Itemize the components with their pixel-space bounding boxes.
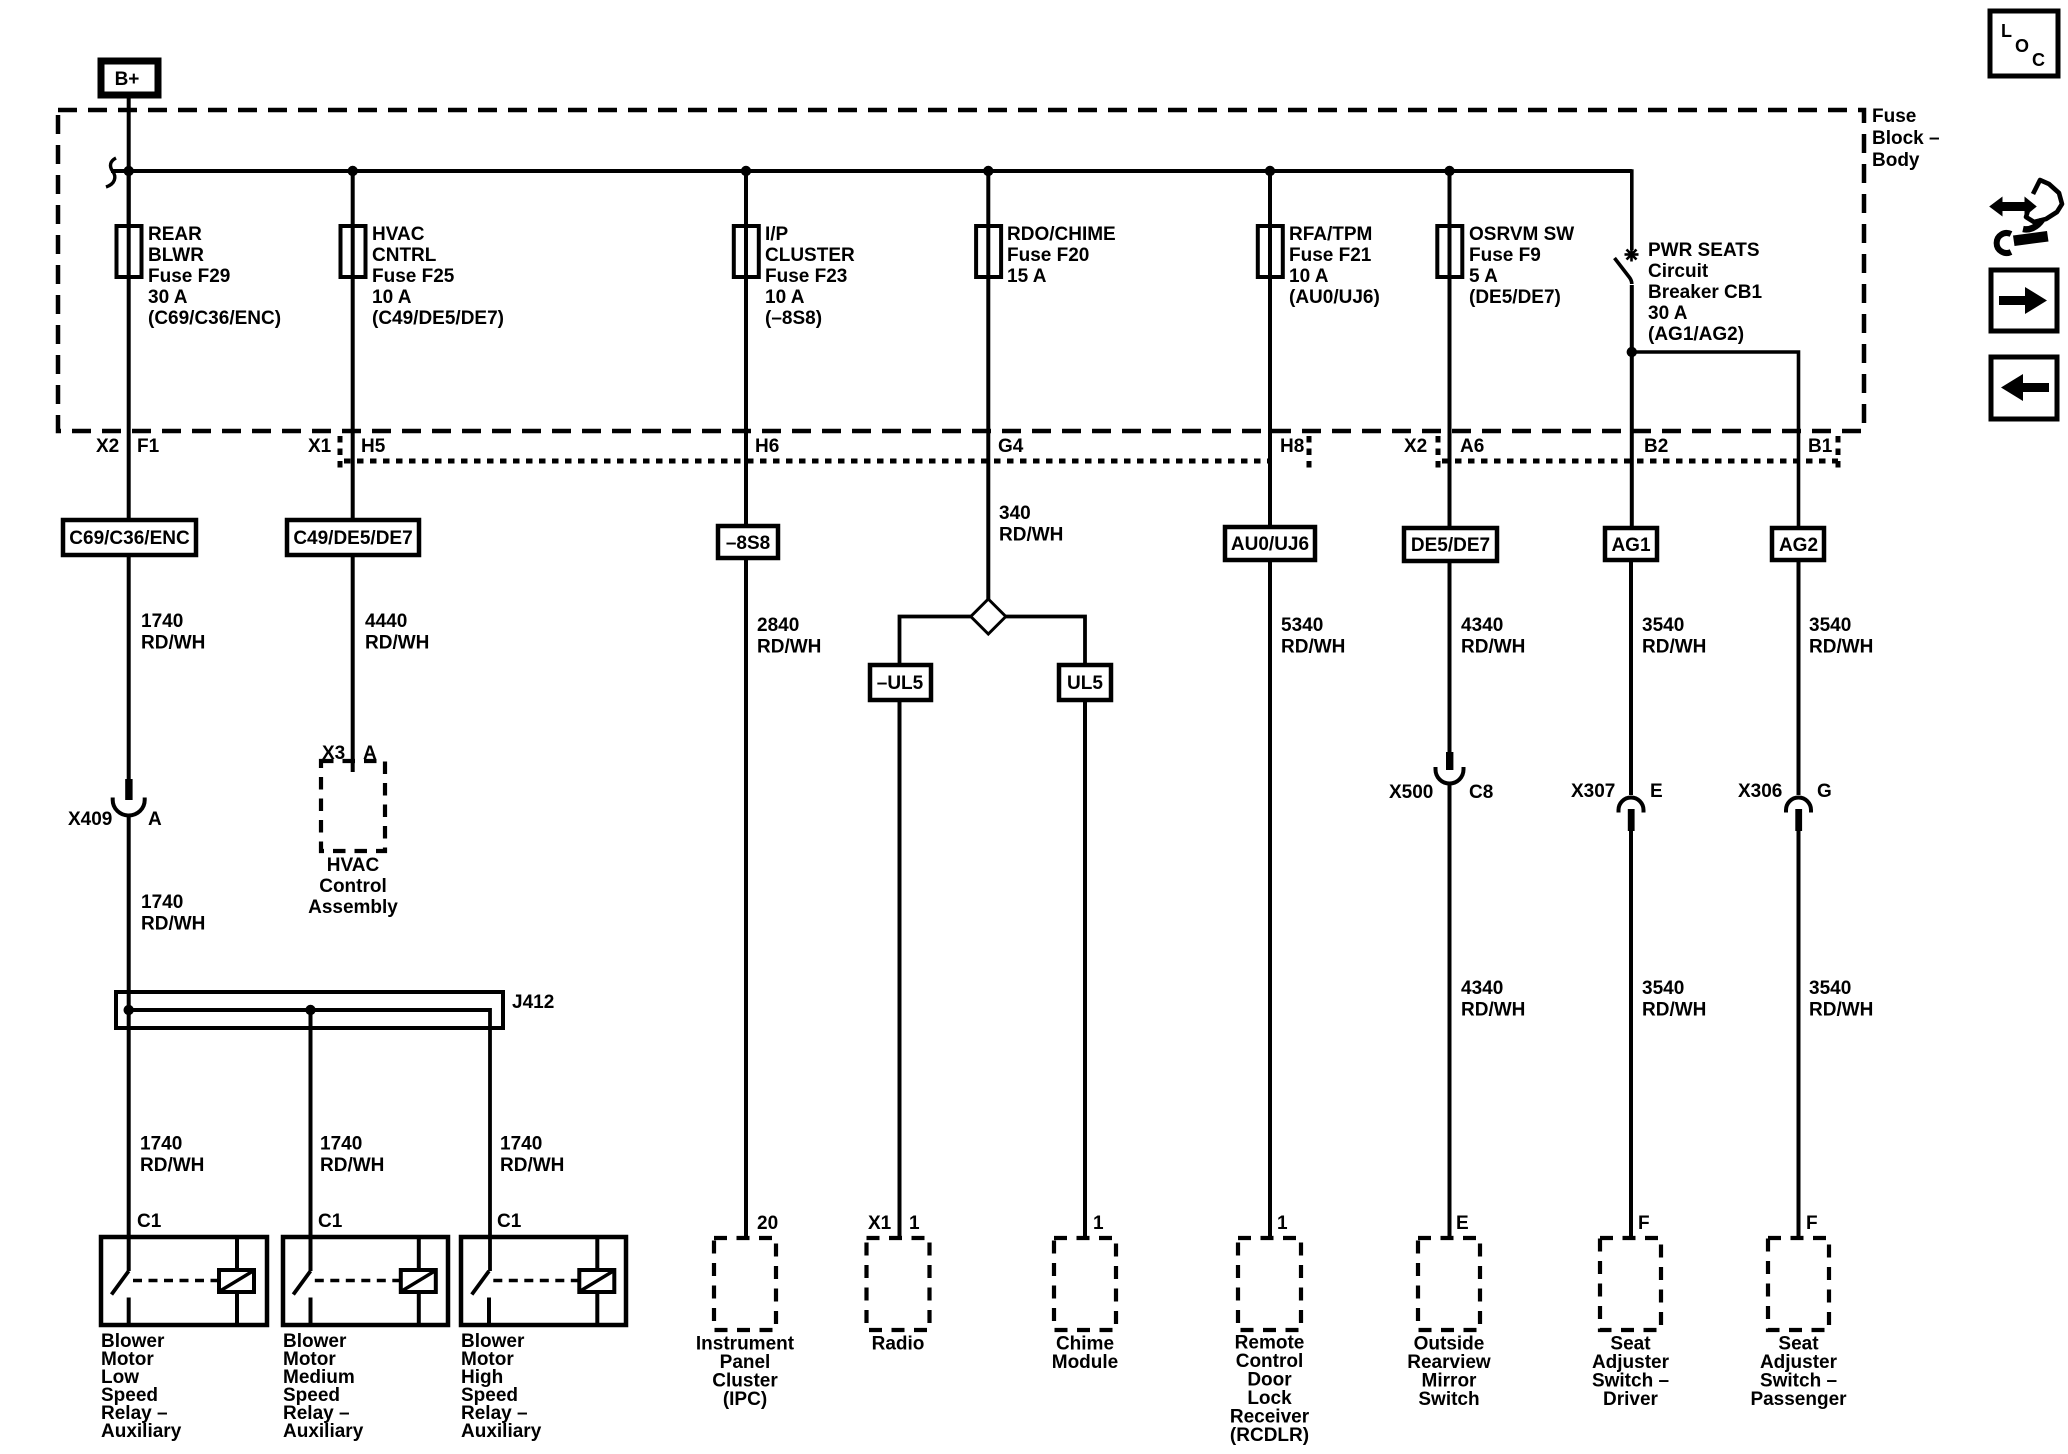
pin label H8	[1280, 436, 1304, 457]
component Chime Module dashed box	[1052, 1238, 1119, 1373]
svg-text:X307: X307	[1571, 781, 1615, 802]
wire label 3540 RD/WH lower passenger	[1809, 978, 1873, 1021]
svg-text:Fuse: Fuse	[1872, 106, 1916, 127]
svg-text:G4: G4	[998, 436, 1024, 457]
svg-text:F: F	[1638, 1213, 1650, 1234]
svg-text:AG1: AG1	[1611, 535, 1651, 556]
svg-text:1: 1	[1093, 1213, 1104, 1234]
svg-text:(–8S8): (–8S8)	[765, 308, 822, 329]
wire fuse F21 to H8	[1268, 277, 1272, 527]
wire label 1740 RD/WH medium	[320, 1134, 384, 1177]
option label UL5	[1059, 665, 1111, 700]
icon shift wrench navigation	[1990, 180, 2062, 253]
svg-text:10 A: 10 A	[765, 287, 805, 308]
svg-text:G: G	[1817, 781, 1832, 802]
wire C49 label to HVAC assembly	[351, 555, 355, 772]
circuit breaker CB1 PWR SEATS	[1615, 240, 1763, 345]
icon LOC box	[1990, 11, 2058, 76]
svg-text:1740: 1740	[500, 1134, 542, 1155]
svg-text:PWR SEATS: PWR SEATS	[1648, 240, 1760, 261]
wire branch left to radio	[900, 617, 971, 666]
svg-text:H6: H6	[755, 436, 779, 457]
svg-text:1740: 1740	[141, 611, 183, 632]
svg-text:E: E	[1456, 1213, 1469, 1234]
main bus wire	[111, 169, 1632, 173]
wire label 1740 RD/WH upper	[141, 611, 205, 654]
wire label 1740 RD/WH middle	[141, 892, 205, 935]
relay K2 Blower Motor Medium Speed Relay Auxiliary	[283, 1237, 448, 1442]
svg-text:30 A: 30 A	[1648, 303, 1688, 324]
svg-text:–UL5: –UL5	[877, 673, 924, 694]
svg-text:B1: B1	[1808, 436, 1833, 457]
svg-text:E: E	[1650, 781, 1663, 802]
inline connector X306 pin G	[1738, 781, 1832, 831]
svg-text:(IPC): (IPC)	[723, 1389, 767, 1410]
svg-text:CLUSTER: CLUSTER	[765, 245, 855, 266]
pin label X2 F1	[96, 436, 160, 457]
splice diamond on circuit 340	[971, 599, 1006, 634]
junction node at F23 tap	[741, 166, 751, 176]
svg-text:340: 340	[999, 503, 1031, 524]
component Seat Adjuster Switch Driver dashed box	[1592, 1238, 1670, 1410]
relay K1 Blower Motor Low Speed Relay Auxiliary	[101, 1237, 267, 1442]
wire bus to fuse F9	[1448, 171, 1452, 226]
wire bus to fuse F25	[351, 171, 355, 226]
svg-text:RD/WH: RD/WH	[500, 1155, 564, 1176]
wire branch right to chime	[1006, 617, 1085, 666]
svg-text:Radio: Radio	[872, 1334, 925, 1355]
svg-text:Auxiliary: Auxiliary	[461, 1421, 542, 1442]
pin label 1 RCDLR	[1277, 1213, 1288, 1234]
harness label C69/C36/ENC	[63, 520, 196, 555]
inline connector X307 pin E	[1571, 781, 1663, 831]
svg-text:(C69/C36/ENC): (C69/C36/ENC)	[148, 308, 281, 329]
svg-text:X2: X2	[96, 436, 119, 457]
svg-text:C1: C1	[137, 1211, 162, 1232]
pin label C1 medium relay	[318, 1211, 343, 1232]
inline connector X409 pin A	[68, 779, 162, 830]
svg-text:REAR: REAR	[148, 224, 202, 245]
wire label 4340 RD/WH upper	[1461, 615, 1525, 658]
svg-text:OSRVM SW: OSRVM SW	[1469, 224, 1574, 245]
harness label C49/DE5/DE7	[287, 520, 419, 555]
pin label X1 H5	[308, 436, 386, 457]
svg-text:A6: A6	[1460, 436, 1484, 457]
pin label X2 A6	[1404, 436, 1484, 457]
wire bus to fuse F20	[986, 171, 990, 226]
svg-text:I/P: I/P	[765, 224, 789, 245]
component Remote Control Door Lock Receiver dashed box	[1230, 1238, 1310, 1446]
connector X1 dotted boundary	[340, 436, 1309, 468]
connector X2 dotted boundary	[1438, 436, 1838, 468]
fuse F23 I/P CLUSTER	[734, 224, 855, 329]
pin label G4	[998, 436, 1024, 457]
svg-text:4340: 4340	[1461, 615, 1503, 636]
svg-text:3540: 3540	[1642, 978, 1684, 999]
svg-text:C49/DE5/DE7: C49/DE5/DE7	[293, 528, 412, 549]
svg-text:(AG1/AG2): (AG1/AG2)	[1648, 324, 1744, 345]
wire X409 down	[127, 816, 131, 1011]
svg-text:30 A: 30 A	[148, 287, 188, 308]
wire label 4340 RD/WH lower	[1461, 978, 1525, 1021]
svg-text:F: F	[1806, 1213, 1818, 1234]
wire fuse F23 to H6	[744, 277, 748, 526]
svg-text:F1: F1	[137, 436, 160, 457]
wire label 3540 RD/WH upper passenger	[1809, 615, 1873, 658]
svg-text:X2: X2	[1404, 436, 1427, 457]
wire fuse F25 to X1 H5	[351, 277, 355, 520]
splice pack J412	[116, 992, 554, 1028]
svg-text:Auxiliary: Auxiliary	[101, 1421, 182, 1442]
svg-text:(AU0/UJ6): (AU0/UJ6)	[1289, 287, 1380, 308]
wire label 3540 RD/WH upper driver	[1642, 615, 1706, 658]
pin label C1 low relay	[137, 1211, 162, 1232]
svg-text:Passenger: Passenger	[1750, 1389, 1847, 1410]
power feed B+	[101, 61, 158, 95]
svg-text:C8: C8	[1469, 782, 1493, 803]
svg-text:5 A: 5 A	[1469, 266, 1498, 287]
svg-text:H5: H5	[361, 436, 386, 457]
junction node J412 tap 2	[305, 1005, 315, 1015]
svg-text:Fuse F21: Fuse F21	[1289, 245, 1372, 266]
svg-text:1740: 1740	[141, 892, 183, 913]
svg-text:Block –: Block –	[1872, 128, 1940, 149]
wire label 5340 RD/WH	[1281, 615, 1345, 658]
option label -UL5	[870, 665, 931, 700]
icon arrow back	[1991, 357, 2057, 419]
svg-text:X500: X500	[1389, 782, 1433, 803]
wire junction to B1 corner	[1632, 352, 1799, 528]
wire label 340 RD/WH	[999, 503, 1063, 546]
svg-text:RD/WH: RD/WH	[1809, 637, 1873, 658]
svg-text:Assembly: Assembly	[308, 897, 398, 918]
svg-text:BLWR: BLWR	[148, 245, 204, 266]
wire X500 down to ORM switch	[1448, 783, 1452, 1238]
svg-text:1740: 1740	[140, 1134, 182, 1155]
pin label 1 chime	[1093, 1213, 1104, 1234]
svg-text:Breaker CB1: Breaker CB1	[1648, 282, 1762, 303]
bus start hook	[106, 158, 116, 187]
svg-text:H8: H8	[1280, 436, 1304, 457]
svg-text:AU0/UJ6: AU0/UJ6	[1231, 534, 1309, 555]
svg-text:HVAC: HVAC	[327, 855, 380, 876]
wire from B+ down	[127, 95, 131, 226]
svg-text:B+: B+	[115, 69, 140, 90]
svg-text:10 A: 10 A	[1289, 266, 1329, 287]
svg-text:RFA/TPM: RFA/TPM	[1289, 224, 1372, 245]
fuse F25 HVAC CNTRL	[341, 224, 505, 329]
svg-text:B2: B2	[1644, 436, 1668, 457]
svg-text:Switch: Switch	[1418, 1389, 1479, 1410]
svg-text:X306: X306	[1738, 781, 1782, 802]
svg-text:3540: 3540	[1642, 615, 1684, 636]
svg-text:2840: 2840	[757, 615, 799, 636]
wire AG1 label to X307	[1629, 560, 1633, 795]
pin label X3 A	[322, 743, 377, 764]
svg-text:RD/WH: RD/WH	[365, 633, 429, 654]
svg-text:RD/WH: RD/WH	[141, 914, 205, 935]
fuse F20 RDO/CHIME	[976, 224, 1116, 287]
svg-text:RD/WH: RD/WH	[320, 1155, 384, 1176]
junction node at F9 tap	[1444, 166, 1454, 176]
wire X307 down to seat adjuster driver	[1629, 831, 1633, 1238]
svg-text:(RCDLR): (RCDLR)	[1230, 1425, 1309, 1446]
svg-text:3540: 3540	[1809, 978, 1851, 999]
svg-text:Auxiliary: Auxiliary	[283, 1421, 364, 1442]
svg-text:O: O	[2015, 36, 2029, 56]
wire label 1740 RD/WH low	[140, 1134, 204, 1177]
svg-text:HVAC: HVAC	[372, 224, 425, 245]
wire bus corner down to breaker CB1	[1630, 169, 1634, 250]
svg-text:15 A: 15 A	[1007, 266, 1047, 287]
svg-text:5340: 5340	[1281, 615, 1323, 636]
svg-text:C1: C1	[318, 1211, 343, 1232]
wire C69 label to X409	[127, 555, 131, 780]
svg-text:RD/WH: RD/WH	[1809, 1000, 1873, 1021]
svg-text:Fuse F29: Fuse F29	[148, 266, 230, 287]
svg-text:RD/WH: RD/WH	[1461, 637, 1525, 658]
junction node breaker output	[1627, 347, 1637, 357]
wire bus to fuse F23	[744, 171, 748, 226]
pin label E ORM switch	[1456, 1213, 1469, 1234]
fuse block body dashed border	[58, 110, 1864, 431]
svg-text:Driver: Driver	[1603, 1389, 1659, 1410]
harness label -8S8	[718, 526, 778, 558]
harness label DE5/DE7	[1404, 528, 1497, 561]
harness label AU0/UJ6	[1225, 527, 1315, 560]
junction node J412 input	[124, 1005, 134, 1015]
svg-text:Module: Module	[1052, 1352, 1119, 1373]
svg-text:RD/WH: RD/WH	[141, 633, 205, 654]
wire fuse F29 to X2 F1	[127, 277, 131, 520]
svg-text:RD/WH: RD/WH	[1281, 637, 1345, 658]
svg-text:4340: 4340	[1461, 978, 1503, 999]
svg-text:Control: Control	[319, 876, 387, 897]
wire breaker to junction	[1630, 285, 1634, 352]
wire J412 to low speed relay	[127, 1010, 131, 1271]
svg-text:A: A	[148, 809, 162, 830]
svg-text:–8S8: –8S8	[726, 533, 770, 554]
svg-text:DE5/DE7: DE5/DE7	[1411, 535, 1490, 556]
wire bus to fuse F29	[127, 171, 131, 226]
component Instrument Panel Cluster dashed box	[696, 1238, 795, 1410]
icon arrow next	[1991, 270, 2057, 331]
svg-text:3540: 3540	[1809, 615, 1851, 636]
svg-text:X1: X1	[308, 436, 332, 457]
svg-text:RD/WH: RD/WH	[1642, 1000, 1706, 1021]
svg-text:Fuse F20: Fuse F20	[1007, 245, 1089, 266]
junction node at F29 tap	[124, 166, 134, 176]
svg-text:RDO/CHIME: RDO/CHIME	[1007, 224, 1116, 245]
svg-text:RD/WH: RD/WH	[757, 637, 821, 658]
wire label 2840 RD/WH	[757, 615, 821, 658]
label Fuse Block Body	[1872, 106, 1940, 171]
pin label B1	[1808, 436, 1833, 457]
HVAC Control Assembly dashed box	[308, 761, 398, 918]
svg-text:RD/WH: RD/WH	[140, 1155, 204, 1176]
component Radio dashed box	[867, 1238, 930, 1355]
wire bus to fuse F21	[1268, 171, 1272, 226]
svg-text:10 A: 10 A	[372, 287, 412, 308]
relay K3 Blower Motor High Speed Relay Auxiliary	[461, 1237, 626, 1442]
component Outside Rearview Mirror Switch dashed box	[1407, 1238, 1491, 1410]
wire label 4440 RD/WH	[365, 611, 429, 654]
svg-text:X409: X409	[68, 809, 112, 830]
svg-text:X1: X1	[868, 1213, 892, 1234]
svg-text:1: 1	[909, 1213, 920, 1234]
wire X306 down to seat adjuster passenger	[1797, 831, 1801, 1238]
component Seat Adjuster Switch Passenger dashed box	[1750, 1238, 1847, 1410]
fuse F29 REAR BLWR	[117, 224, 282, 329]
harness label AG1	[1605, 528, 1657, 560]
svg-text:RD/WH: RD/WH	[999, 525, 1063, 546]
pin label F seat passenger	[1806, 1213, 1818, 1234]
wire H6 down to IPC	[744, 558, 748, 1238]
svg-text:1740: 1740	[320, 1134, 362, 1155]
svg-text:(C49/DE5/DE7): (C49/DE5/DE7)	[372, 308, 504, 329]
inline connector X500 pin C8	[1389, 752, 1493, 803]
svg-text:RD/WH: RD/WH	[1461, 1000, 1525, 1021]
svg-text:J412: J412	[512, 992, 554, 1013]
fuse F9 OSRVM SW	[1437, 224, 1574, 308]
svg-text:UL5: UL5	[1067, 673, 1103, 694]
svg-text:4440: 4440	[365, 611, 407, 632]
fuse F21 RFA/TPM	[1258, 224, 1380, 308]
svg-text:CNTRL: CNTRL	[372, 245, 437, 266]
pin label H6	[755, 436, 779, 457]
wire label 3540 RD/WH lower driver	[1642, 978, 1706, 1021]
svg-text:AG2: AG2	[1779, 535, 1818, 556]
svg-text:C69/C36/ENC: C69/C36/ENC	[69, 528, 190, 549]
wire junction down to B2	[1630, 352, 1634, 528]
wire fuse F20 to G4	[986, 277, 990, 599]
wire DE5/DE7 label to X500	[1448, 561, 1452, 753]
svg-text:1: 1	[1277, 1213, 1288, 1234]
svg-text:Fuse F23: Fuse F23	[765, 266, 847, 287]
svg-text:L: L	[2001, 21, 2012, 41]
wire J412 to high speed relay	[488, 1008, 492, 1271]
pin label C1 high relay	[497, 1211, 522, 1232]
wire UL5 to chime	[1083, 700, 1087, 1238]
harness label AG2	[1772, 528, 1824, 560]
junction node at F21 tap	[1265, 166, 1275, 176]
wire label 1740 RD/WH high	[500, 1134, 564, 1177]
pin label X1 1 radio	[868, 1213, 920, 1234]
pin label B2	[1644, 436, 1668, 457]
wire -UL5 to radio	[898, 700, 902, 1238]
svg-text:C1: C1	[497, 1211, 522, 1232]
svg-text:Fuse F25: Fuse F25	[372, 266, 455, 287]
junction node at F20 tap	[983, 166, 993, 176]
svg-text:RD/WH: RD/WH	[1642, 637, 1706, 658]
junction node at F25 tap	[348, 166, 358, 176]
wire H8 down to RCDLR	[1268, 560, 1272, 1238]
svg-text:Circuit: Circuit	[1648, 261, 1709, 282]
svg-text:20: 20	[757, 1213, 778, 1234]
svg-text:C: C	[2032, 50, 2045, 70]
wire AG2 label to X306	[1797, 560, 1801, 795]
wire fuse F9 to A6	[1448, 277, 1452, 528]
wire J412 to medium speed relay	[309, 1010, 313, 1271]
svg-text:(DE5/DE7): (DE5/DE7)	[1469, 287, 1561, 308]
pin label 20 IPC	[757, 1213, 778, 1234]
pin label F seat driver	[1638, 1213, 1650, 1234]
svg-text:Body: Body	[1872, 150, 1920, 171]
svg-text:Fuse F9: Fuse F9	[1469, 245, 1541, 266]
